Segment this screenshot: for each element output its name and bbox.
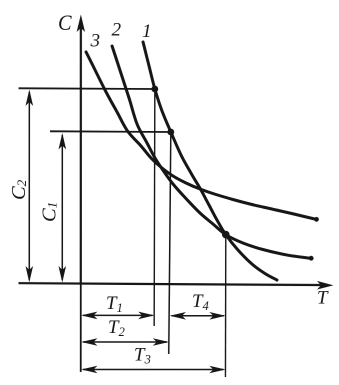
svg-text:C: C (58, 10, 72, 35)
svg-text:2: 2 (112, 19, 122, 40)
node dot on curve 1 at C1 level (167, 129, 174, 136)
svg-text:T: T (317, 288, 329, 309)
y-axis extension below x-axis (80, 283, 82, 372)
dimension arrow T4 (170, 312, 226, 320)
dimension arrow T1 (81, 312, 154, 320)
svg-text:1: 1 (142, 21, 152, 42)
dimension arrow T2 (81, 338, 169, 346)
dimension arrow T3 (81, 366, 225, 374)
node dot at curves 1-2 intersection (222, 231, 230, 239)
curve 2 end blob (309, 256, 314, 261)
y-axis (C axis) (77, 14, 85, 283)
vertical drop line from C1 dot (169, 132, 171, 354)
vertical drop line from intersection dot (224, 235, 226, 377)
horizontal level line C2 (19, 87, 156, 90)
curve 3 end blob (314, 217, 319, 222)
svg-text:3: 3 (90, 30, 101, 51)
node dot on curve 1 at C2 level (151, 86, 158, 93)
vertical drop line from C2 dot (153, 89, 156, 326)
curve 1 (143, 42, 277, 280)
horizontal level line C1 (50, 130, 171, 133)
curve 2 (112, 46, 312, 258)
dimension arrow C1 (58, 133, 66, 283)
x-axis (T axis) (18, 281, 333, 290)
curve 3 (86, 52, 317, 220)
dimension arrow C2 (25, 89, 33, 282)
